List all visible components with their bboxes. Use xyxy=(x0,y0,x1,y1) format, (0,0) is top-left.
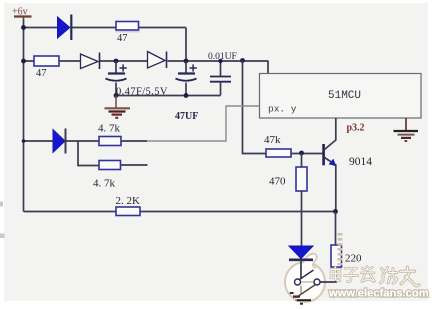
wire px.y to 4.7k (gray) xyxy=(147,106,260,141)
ground (right of MCU) xyxy=(394,118,419,141)
resistor R1 47 (top row) xyxy=(116,22,141,45)
resistor R3 4.7k xyxy=(98,123,147,146)
LED D5 (blue, down) xyxy=(289,246,313,279)
node B row2 xyxy=(184,59,189,64)
svg-text:px. y: px. y xyxy=(268,104,297,115)
node top-left xyxy=(21,25,26,30)
diode D2 (outline, row2) xyxy=(81,53,100,70)
svg-text:220: 220 xyxy=(345,253,362,265)
capacitor C3 0.01UF xyxy=(208,52,237,96)
wire stub below left terminal (faint) xyxy=(300,286,302,295)
svg-text:0.01UF: 0.01UF xyxy=(208,52,237,62)
wire bottom horizontal xyxy=(24,211,336,213)
resistor R7 470 (vertical) xyxy=(269,153,307,246)
node base xyxy=(299,151,304,156)
resistor R2 47 (row2) xyxy=(34,56,59,79)
svg-text:47UF: 47UF xyxy=(175,111,198,122)
ground (left, under C1) xyxy=(105,96,131,118)
resistor R4 4.7k xyxy=(93,161,148,190)
node row2 to 47k xyxy=(240,58,245,63)
svg-text:470: 470 xyxy=(269,176,286,188)
svg-text:9014: 9014 xyxy=(349,156,372,168)
ground (bottom, under switch) xyxy=(290,293,311,304)
diode D1 (blue, top row) xyxy=(58,15,72,41)
svg-text:51MCU: 51MCU xyxy=(328,90,361,102)
resistor R6 47k xyxy=(264,134,323,157)
svg-text:2. 2K: 2. 2K xyxy=(116,195,141,207)
svg-text:47k: 47k xyxy=(264,134,281,146)
node A row2 xyxy=(114,59,119,64)
wire top row xyxy=(24,28,187,62)
wire through logo (faint) xyxy=(300,281,315,283)
diode D4 (blue, row3) xyxy=(53,129,66,154)
svg-text:www.elecfans.com: www.elecfans.com xyxy=(328,288,429,300)
wire row3 photodiode xyxy=(24,141,100,166)
svg-text:47: 47 xyxy=(117,33,128,44)
capacitor C2 47UF xyxy=(175,61,198,122)
diode D3 (outline, row2) xyxy=(148,52,167,69)
node emitter/bottom wire xyxy=(333,209,338,214)
capacitor C1 0.47F/5.5V xyxy=(106,61,168,98)
node row2 left xyxy=(21,59,26,64)
watermark dotted column xyxy=(338,233,343,265)
edge artifact smudges xyxy=(0,202,3,207)
ground wire under caps xyxy=(116,95,221,97)
resistor R5 2.2K xyxy=(116,195,141,216)
watermark logo circle xyxy=(285,254,325,302)
51MCU box U1 xyxy=(260,74,422,119)
svg-text:4. 7k: 4. 7k xyxy=(98,123,121,135)
svg-text:p3.2: p3.2 xyxy=(347,123,365,134)
svg-text:47: 47 xyxy=(36,68,47,79)
svg-text:4. 7k: 4. 7k xyxy=(93,178,116,190)
wire row2 xyxy=(24,61,269,74)
wire left rail xyxy=(23,20,25,212)
power rail +6v xyxy=(12,7,32,22)
transistor Q1 9014 xyxy=(324,118,373,212)
switch S1 xyxy=(295,270,321,297)
resistor R8 220 (vertical) xyxy=(320,212,362,283)
wire drop to 47k xyxy=(243,61,267,154)
